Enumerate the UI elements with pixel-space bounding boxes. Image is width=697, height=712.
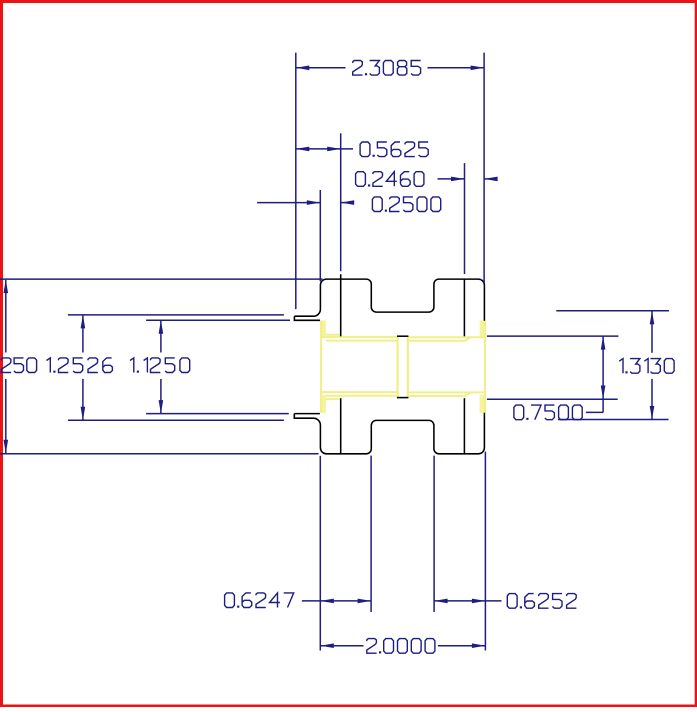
ext line 1.3130 top <box>556 310 669 312</box>
left bore bottom line 1 <box>321 391 398 393</box>
pulley top section outline <box>294 279 484 321</box>
dim line 0.2460 <box>438 178 465 180</box>
arrowheads <box>296 66 310 71</box>
hub flange line upper right <box>463 279 465 337</box>
ext line left dim bottom <box>0 453 319 455</box>
dim text 0.7500 <box>514 405 582 420</box>
ext line 0.2500 left <box>319 190 321 281</box>
left bore top line 2 <box>326 340 398 342</box>
ext line 2.3085 left <box>295 53 297 310</box>
bore left outer line <box>320 320 322 413</box>
hub flange line upper left <box>340 274 342 336</box>
ext line 0.7500 bottom <box>487 398 618 400</box>
dim text 1.1250 <box>130 358 190 373</box>
left bore bottom step stub <box>326 398 340 400</box>
bore center bottom connector <box>397 397 408 399</box>
dim line left (2.1250) <box>5 280 7 353</box>
dim line 1.3130 <box>651 311 653 353</box>
dim text 250 (clipped 2.1250) <box>1 358 37 373</box>
bore center right line <box>407 336 409 399</box>
pulley top left tab step <box>294 316 320 320</box>
left bore bottom line 2 <box>326 395 398 397</box>
ext line 2.3085 right <box>483 53 485 283</box>
dim line 2.3085 <box>296 67 346 69</box>
dim text 0.6252 <box>507 594 576 609</box>
bore right tab band bottom <box>480 395 486 413</box>
dim text 0.2500 <box>372 197 440 212</box>
dim text 1.3130 <box>619 359 674 374</box>
right bore top line 1 <box>408 336 485 338</box>
dim line 0.5625 <box>296 148 353 150</box>
dim line 2.0000 <box>320 645 363 647</box>
dim text 0.6247 <box>225 593 294 608</box>
dim line 0.6247 <box>302 600 371 602</box>
bore left tab band top <box>320 320 326 338</box>
bore center top connector <box>397 335 408 337</box>
hub flange line lower left <box>340 398 342 454</box>
dim line 0.6252 <box>434 600 501 602</box>
dim text 1.2526 <box>47 358 113 373</box>
ext line bottom left edge <box>319 456 321 651</box>
right bore bottom line 1 <box>408 391 485 393</box>
ext line bottom groove left <box>370 456 372 612</box>
ext line 1.1250 top <box>146 319 290 321</box>
bore right tab band top <box>480 320 486 338</box>
ext line bottom right edge <box>484 452 486 651</box>
ext line bottom groove right <box>433 456 435 612</box>
ext line 0.7500 top <box>487 335 619 337</box>
bore center left line <box>397 336 399 399</box>
ext line left dim top <box>0 278 323 280</box>
dim text 2.3085 <box>353 61 421 76</box>
right bore top line 2 with chamfer <box>408 337 471 340</box>
ext line 1.3130 bottom <box>558 419 669 421</box>
dim line 0.7500 with leader <box>602 337 604 413</box>
left bore top line 1 <box>321 336 398 338</box>
dim text 0.2460 <box>356 172 424 187</box>
hub flange line lower right <box>463 398 465 454</box>
ext line 0.2460 left <box>464 163 466 274</box>
left bore top step stub <box>326 334 340 336</box>
ext line 1.2526 bottom <box>68 419 284 421</box>
right bore bottom line 2 with chamfer <box>408 393 471 396</box>
ext line 1.1250 bottom <box>146 413 289 415</box>
dim text 0.5625 <box>360 142 428 157</box>
dim line 1.1250 <box>160 321 162 353</box>
dim line 0.2500 <box>257 202 320 204</box>
dim line 1.2526 <box>82 315 84 352</box>
bore right outer line <box>484 320 486 413</box>
dim text 2.0000 <box>367 639 435 654</box>
pulley bottom section outline <box>294 413 484 454</box>
ext line 1.2526 top <box>68 314 284 316</box>
ext line 0.5625 right <box>340 133 342 271</box>
bore left tab band bottom <box>320 395 326 413</box>
